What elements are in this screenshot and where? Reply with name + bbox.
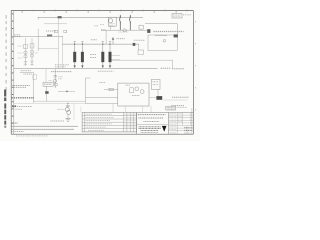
fuse F3 drop wire [102, 44, 104, 52]
small relay circle inside enclosure [163, 40, 166, 43]
annotation text at arrow [70, 90, 75, 92]
M1 CT circles [53, 79, 56, 82]
small cell texts above frame [170, 132, 191, 134]
corner down from mid wire [172, 60, 174, 68]
small text above start [14, 33, 20, 35]
revision table outline [82, 113, 137, 132]
dark start of label wire [14, 35, 21, 37]
stamp text right [17, 105, 32, 107]
fuse F1 body [73, 52, 76, 62]
lower wire from unit [102, 29, 148, 31]
dark junction blob on feeder bus [133, 43, 136, 46]
notes small text left of table [51, 120, 65, 122]
label text above bus between fuse groups [55, 65, 69, 67]
label text right of TB1 [153, 31, 183, 33]
junction cross X1 [45, 91, 48, 94]
small labels left of unit [94, 25, 104, 26]
text between fuse groups [90, 55, 96, 58]
drawing number text [184, 128, 193, 131]
labels right of connector [171, 97, 189, 105]
P1 lamp circle L1 [135, 87, 139, 91]
wire top right [145, 23, 177, 25]
label text second row [155, 34, 167, 36]
wire from bus down to K1 [45, 69, 47, 83]
revision table row text smudges [85, 114, 114, 130]
small text near cubicle [99, 82, 105, 84]
breaker CB2 arc [130, 15, 131, 30]
wire below K1 [45, 86, 47, 91]
zone letter marks left margin strip [12, 13, 13, 123]
feeder label line [20, 71, 34, 73]
isolator ticks above feeder bus [74, 41, 112, 44]
arrow wire to annotation [58, 90, 67, 92]
border frame left inner line [13, 11, 15, 135]
title block left border [136, 113, 138, 135]
small box below feeder bus right [138, 50, 144, 54]
riser wire from bus tap [57, 18, 59, 68]
pointer line left of chain [57, 108, 65, 110]
border frame left outer line [10, 11, 12, 135]
faint underline right [163, 99, 188, 101]
connector blob right [156, 96, 162, 100]
title text line 2 [138, 117, 163, 119]
metering chain M1 vertical [54, 69, 56, 88]
feeder bus wire [62, 43, 139, 45]
IC2 label right [35, 52, 39, 54]
fuse F2 body [81, 52, 84, 62]
title block right grid rows [168, 115, 193, 131]
floating text above [46, 30, 56, 32]
branch wire [39, 48, 59, 50]
wire segment second line [44, 23, 67, 25]
dark bus label on wire [47, 35, 52, 37]
text above feeder bus [91, 39, 97, 41]
aux box right [151, 79, 160, 89]
wire drop at right [176, 24, 178, 35]
title block divider line [137, 124, 169, 126]
wire out of panel right [149, 96, 157, 98]
margin vertical text dark lower block [4, 90, 6, 125]
relay box K1 [43, 82, 53, 86]
border frame outer top [11, 10, 193, 12]
wire from unit box down [110, 26, 112, 30]
cable vertical run [32, 72, 34, 102]
reference text right of box [177, 107, 187, 109]
junction dot on wire [67, 103, 68, 104]
instrument box on lower wire [139, 25, 143, 29]
notes line 2 [11, 128, 74, 130]
P1 lamp circle L2 [140, 90, 144, 94]
bus end label text [161, 67, 184, 70]
cubicle outline top stub [85, 77, 90, 79]
T1 wire to ground [67, 114, 69, 118]
note box text lines [173, 15, 181, 17]
fuse F3 body [101, 52, 104, 62]
T1 tick marks [66, 106, 70, 107]
main lower bus wire [14, 68, 158, 70]
P1 inner device [130, 88, 134, 93]
faint zone letters right margin [195, 21, 196, 110]
P1 text bottom [132, 95, 140, 97]
side vertical wire [73, 103, 75, 120]
wire stub down from top bus [37, 17, 39, 51]
fuse F1 drop wire [74, 44, 76, 52]
fuse box on lower wire [123, 29, 127, 32]
text under bus mid [51, 71, 72, 73]
border frame right inner faint line [191, 108, 193, 134]
dark junction box on enclosure corner [174, 34, 178, 37]
text under bus right [98, 70, 114, 72]
title text line 3 [143, 120, 159, 122]
right grid label smudges [169, 114, 182, 130]
IC2 CT circles [30, 50, 33, 53]
wire below aux box [157, 89, 159, 96]
long mid wire [112, 59, 173, 61]
small device D1 below line [54, 30, 57, 32]
terminal marks left of drop [101, 29, 106, 31]
company name block [139, 127, 161, 131]
drop wire from lower wire to feeder bus [105, 30, 107, 44]
title block middle vertical [167, 113, 169, 135]
instrument chain IC2 vertical [31, 38, 33, 66]
faint wire lower left long [14, 102, 85, 104]
zone tick marks top edge [33, 9, 187, 12]
fuse F4 body [109, 52, 112, 62]
fuse F2 drop wire [81, 44, 83, 52]
revision table small cells text [124, 114, 136, 127]
title block top border [137, 112, 194, 114]
note text right of box [183, 14, 191, 16]
wire across lower left [33, 100, 85, 102]
enclosure rectangle A [148, 35, 177, 50]
corner wire down from label wire [61, 36, 63, 68]
caption text below bottom frame [16, 135, 48, 137]
dark label row lower left [11, 97, 34, 99]
generator unit box U1 [108, 17, 116, 26]
border frame bottom [11, 133, 193, 135]
fuse F4 drop wire [109, 44, 111, 52]
small device D2 below line [64, 30, 67, 32]
transformer chain T1 wire down [67, 103, 69, 107]
breaker CB1 arc [120, 15, 121, 30]
small stamp squares bottom left [12, 105, 14, 107]
zone number marks below top edge [22, 11, 177, 12]
title text line 1 [138, 114, 166, 116]
instrument chain IC1 vertical [25, 38, 27, 66]
text inside unit box [109, 24, 115, 26]
margin vertical drawing-number text upper [6, 15, 7, 90]
wire below X1 [45, 94, 47, 102]
IC1 labels left [18, 46, 23, 58]
registered mark triangle [162, 126, 167, 132]
junction dots on feeder bus [74, 43, 111, 44]
short connector above revision table [80, 107, 82, 113]
feeder label text row [12, 85, 30, 87]
M1 label right [58, 77, 63, 79]
small text below lower wire [119, 31, 129, 33]
fuse F4 bottom arrow [109, 62, 111, 66]
revision table column lines [84, 113, 133, 132]
top bus wire [38, 16, 143, 18]
text above feeder label line [21, 70, 31, 72]
wire stubs from panel down to tables [113, 103, 151, 112]
notes line 1 [11, 125, 78, 127]
company block bottom row [141, 131, 158, 133]
stub wires right of fuse F4 [112, 55, 121, 60]
title block right grid columns [177, 113, 191, 135]
fuse F3 bottom arrow [102, 62, 104, 66]
T1 winding circles [65, 107, 69, 111]
small device marks below label [33, 75, 37, 79]
P1 text top [126, 84, 130, 86]
revision table row lines [82, 116, 137, 129]
control panel box P1 [118, 83, 149, 106]
M1 top device marks [54, 75, 57, 77]
IC1 lower marks [24, 61, 27, 64]
M1 label left [49, 79, 53, 81]
notes line 3 short [11, 131, 23, 133]
junction tap J1 on top bus [58, 16, 62, 18]
notes header [11, 122, 18, 124]
generator circle G1 [109, 19, 113, 23]
note reference box top right [172, 13, 182, 18]
IC1 switch box [24, 44, 28, 48]
dark terminal block TB1 [147, 29, 150, 33]
IC2 switch box [30, 44, 34, 48]
IC2 lower marks [30, 61, 33, 64]
reference drawing box above title block [166, 106, 176, 110]
up arrow to remote [112, 39, 114, 44]
fuse F2 bottom arrow [81, 62, 83, 66]
fuse F1 bottom arrow [74, 62, 76, 66]
IC1 CT circles [24, 51, 27, 54]
border frame right line [192, 11, 194, 135]
wire into panel with device [104, 89, 118, 91]
text right of feeder bus [134, 39, 145, 41]
ground symbol [65, 118, 70, 121]
label at up arrow [116, 38, 125, 40]
cubicle outline left vertical [84, 78, 86, 103]
label wire with text left [14, 35, 63, 37]
text below feeder label line [24, 73, 32, 75]
cubicle wires to panel [85, 98, 117, 104]
